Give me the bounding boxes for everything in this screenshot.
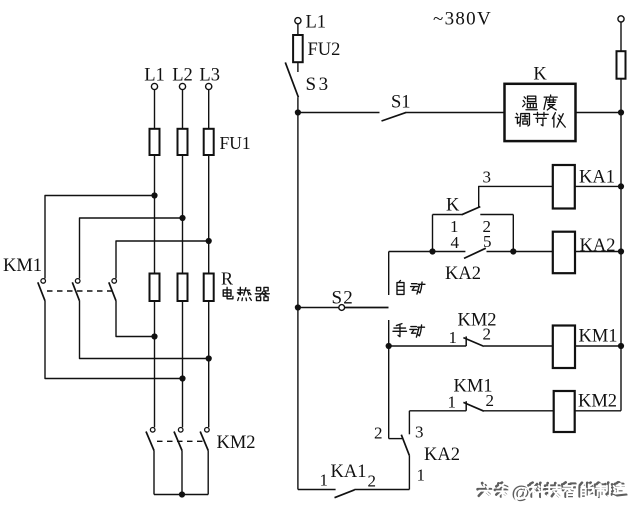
contact KM1 pole 3 blade — [109, 282, 116, 301]
wire KM1 pole 2 to L3 — [80, 301, 209, 359]
terminal L2 — [179, 83, 185, 89]
relay coil KA1 — [553, 165, 575, 209]
svg-text:1: 1 — [417, 466, 426, 485]
junction K common on KA2 row — [429, 248, 435, 254]
wire L3 fuse to heater — [208, 155, 210, 274]
contact KM1 pole 1 blade — [38, 282, 45, 301]
svg-text:KM2: KM2 — [578, 392, 617, 412]
wire contact3 riser — [479, 186, 553, 206]
svg-text:~380V: ~380V — [433, 9, 492, 30]
wire L3 heater to KM2 — [208, 301, 210, 427]
wire left control bus — [297, 113, 299, 490]
terminal right source — [618, 16, 624, 22]
wire L2 KM2 to bottom — [181, 451, 183, 495]
svg-text:2: 2 — [483, 325, 492, 344]
junction L3 tap — [206, 238, 212, 244]
watermark toutiao text — [478, 481, 628, 504]
wire L2 fuse to heater — [182, 155, 184, 274]
wire L1 KM2 to bottom — [153, 451, 155, 495]
svg-text:S2: S2 — [332, 288, 354, 309]
wire KM1 coil to right bus — [575, 345, 621, 347]
junction KM1 pole2-L3 — [206, 355, 212, 361]
svg-text:K: K — [533, 65, 547, 85]
svg-text:KM2: KM2 — [217, 433, 256, 453]
svg-text:KA2: KA2 — [445, 264, 481, 284]
label shoudong (manual) — [393, 324, 407, 337]
label wendu (temperature) — [523, 96, 538, 110]
fuse right branch — [617, 51, 626, 78]
junction L2 tap — [179, 215, 185, 221]
wire L3 KM2 to bottom — [207, 451, 209, 495]
resistor R heater L2 — [178, 274, 188, 302]
wire L2 to FU1 — [182, 90, 184, 129]
svg-text:1: 1 — [320, 471, 329, 490]
resistor R heater L3 — [204, 274, 214, 302]
wire KM1 pole 3 to L1 — [116, 301, 155, 337]
wire manual bus down — [388, 346, 390, 439]
junction KM1 pole1-L2 — [179, 375, 185, 381]
contact KM1 pole 1 fixed terminal — [41, 279, 46, 284]
wire S1 to K box — [407, 112, 505, 114]
svg-text:KA2: KA2 — [424, 445, 460, 465]
junction right bus KM1 — [618, 343, 624, 349]
wire S3 to junction — [297, 97, 299, 112]
contact KM2 pole 2 fixed terminal — [178, 428, 183, 433]
junction manual node — [386, 343, 392, 349]
resistor R heater L1 — [150, 274, 160, 302]
svg-text:S3: S3 — [306, 74, 331, 95]
svg-text:2: 2 — [486, 391, 495, 410]
contact KM2 NC bar — [465, 336, 467, 346]
contact KA2 changeover blade — [401, 435, 409, 456]
wire K contact terminal 2 — [480, 214, 513, 216]
contact KM1 pole 2 fixed terminal — [75, 279, 80, 284]
wire K contact common — [433, 214, 462, 216]
wire bottom left segment — [298, 489, 336, 491]
svg-text:3: 3 — [415, 423, 424, 442]
svg-text:FU2: FU2 — [308, 40, 341, 60]
label zidong (auto) — [397, 280, 404, 294]
wire auto stub — [388, 252, 390, 296]
terminal L3 — [206, 83, 212, 89]
svg-text:KM1: KM1 — [3, 256, 42, 276]
wire terminal3 to KM1 NC — [409, 410, 466, 412]
label dianreqi (heater) — [223, 287, 233, 299]
svg-text:1: 1 — [448, 393, 457, 412]
switch S3 blade — [285, 62, 298, 97]
svg-text:K: K — [446, 196, 460, 216]
relay coil KA2 — [553, 232, 575, 274]
svg-text:3: 3 — [483, 168, 492, 187]
switch S2 pivot — [339, 305, 345, 311]
contact KA1 blade — [335, 490, 355, 498]
svg-text:1: 1 — [449, 328, 458, 347]
svg-text:KA1: KA1 — [331, 462, 367, 482]
wire bottom right segment — [354, 489, 409, 491]
KM1 linkage dashed line — [47, 290, 112, 292]
temperature controller K box — [505, 84, 576, 141]
junction L1 tap — [151, 192, 157, 198]
contact KM1 pole 3 fixed terminal — [112, 279, 117, 284]
fuse FU2 — [293, 35, 303, 62]
fuse FU1 phase L3 — [204, 129, 214, 155]
switch S1 blade — [382, 112, 407, 121]
junction S2 tap — [295, 304, 301, 310]
svg-text:4: 4 — [451, 233, 460, 252]
wire KA2 contact to coil — [487, 251, 553, 253]
svg-text:@: @ — [513, 483, 531, 504]
contact KM2 pole 3 fixed terminal — [205, 428, 210, 433]
KM2 linkage dashed line — [157, 440, 204, 442]
wire junction to S1 — [298, 112, 380, 114]
wire KA1 coil to right bus — [575, 185, 621, 187]
fuse FU1 phase L1 — [150, 129, 160, 155]
contact KM1 pole 2 blade — [72, 282, 79, 301]
junction KM1 pole3-L1 — [151, 333, 157, 339]
wire bottom bus of main circuit — [154, 494, 208, 496]
wire common drop — [432, 215, 434, 252]
svg-text:KA2: KA2 — [580, 236, 616, 256]
contact KM2 pole 3 blade — [200, 432, 208, 451]
wire changeover terminal2 stub — [389, 438, 402, 440]
wire K box to right bus — [576, 112, 622, 114]
contact KM1 NC bar — [465, 401, 467, 411]
junction bottom L2 — [179, 491, 185, 497]
wire tap L1 to KM1 contact 1 — [45, 196, 155, 279]
wire KM1 NC to KM2 coil — [484, 410, 554, 412]
wire L3 to FU1 — [208, 90, 210, 129]
wire L1 heater to KM2 — [154, 301, 156, 427]
wire terminal 2 drop — [512, 215, 514, 252]
wire tap L3 to KM1 contact 3 — [116, 241, 209, 279]
wire right terminal to fuse — [620, 22, 622, 51]
wire KM1 pole 1 to L2 — [45, 301, 183, 379]
wire L1 to FU1 — [154, 90, 156, 129]
contact KA2 4-5 blade — [464, 248, 486, 258]
contact KM2 pole 1 fixed terminal — [150, 428, 155, 433]
svg-text:S1: S1 — [391, 93, 411, 113]
svg-text:L1: L1 — [306, 13, 327, 33]
switch S2 blade — [345, 307, 389, 309]
wire changeover common drop — [408, 456, 410, 490]
svg-text:L3: L3 — [199, 66, 220, 86]
svg-text:KA1: KA1 — [579, 168, 615, 188]
wire tap L2 to KM1 contact 2 — [80, 218, 183, 279]
svg-text:R: R — [221, 269, 233, 289]
wire manual node to KM2 NC — [389, 345, 467, 347]
wire KM2 coil to right bus — [575, 410, 621, 412]
wire right control bus — [620, 79, 622, 411]
contact K blade 1-3 — [462, 207, 481, 215]
svg-text:FU1: FU1 — [220, 133, 251, 153]
terminal L1 — [151, 83, 157, 89]
wire changeover terminal3 riser — [408, 411, 410, 435]
terminal control L1 — [295, 18, 301, 24]
wire FU2 to S3 — [297, 62, 299, 72]
fuse FU1 phase L2 — [178, 129, 188, 155]
wire auto bus to KA2 contact — [389, 251, 466, 253]
wire L2 heater to KM2 — [182, 301, 184, 427]
svg-text:L1: L1 — [144, 66, 165, 86]
relay coil KM1 — [553, 326, 575, 369]
junction right bus at K row — [618, 109, 624, 115]
contact KM2 pole 2 blade — [174, 432, 182, 451]
wire KA2 coil to right bus — [575, 251, 621, 253]
wire left bus to S2 — [298, 307, 339, 309]
wire manual stub — [388, 320, 390, 346]
svg-text:L2: L2 — [172, 66, 193, 86]
contact KM2 NC blade — [463, 338, 484, 347]
junction right bus KA1 — [618, 183, 624, 189]
wire KM2 NC to KM1 coil — [484, 345, 553, 347]
junction right bus KA2 — [618, 248, 624, 254]
wire terminal to FU2 — [297, 24, 299, 35]
svg-text:KM1: KM1 — [579, 327, 618, 347]
label tiaojieyi (regulator) — [515, 113, 529, 126]
wire L1 fuse to heater — [154, 155, 156, 274]
contact KM1 NC blade — [463, 402, 484, 411]
svg-text:2: 2 — [374, 424, 383, 443]
relay coil KM2 — [554, 391, 575, 432]
junction terminal2 on KA2 row — [510, 248, 516, 254]
junction left bus top — [295, 109, 301, 115]
svg-text:2: 2 — [368, 472, 377, 491]
contact KM2 pole 1 blade — [146, 432, 154, 451]
